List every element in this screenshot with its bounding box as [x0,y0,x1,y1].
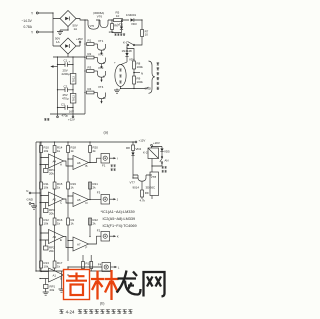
transistor VT3 [98,66,106,82]
resistor R6 [109,20,119,34]
svg-text:VT3: VT3 [98,66,104,70]
svg-text:K-2: K-2 [143,151,148,155]
resistor ladder rails [41,142,90,271]
svg-text:VT5: VT5 [90,25,95,28]
svg-text:A1: A1 [53,273,57,277]
wire bus left column [50,20,85,114]
svg-text:IC2(A5~A8):LM339: IC2(A5~A8):LM339 [103,217,136,221]
svg-text:VT6: VT6 [97,14,103,18]
terminal ground line [44,114,58,121]
svg-text:20k: 20k [50,288,55,292]
svg-text:N: N [26,189,28,193]
wire main rail [76,19,129,21]
branch K-2 [126,142,148,178]
op-amp A7 [64,237,89,252]
svg-text:10k: 10k [44,222,49,226]
regulator 7805 [70,94,76,104]
svg-text:A2: A2 [53,197,57,201]
svg-text:16V: 16V [69,110,74,114]
svg-text:K: K [117,235,119,239]
svg-text:10: 10 [145,33,149,37]
svg-text:B: B [86,164,88,168]
brace [144,61,155,93]
ground-wire arrow [50,65,57,67]
resistor R20 [67,218,75,226]
svg-text:N: N [141,71,143,75]
svg-text:A6: A6 [77,161,81,165]
svg-text:+20V: +20V [153,141,160,145]
label +25V [76,37,83,46]
resistor R3 row [87,66,98,73]
svg-text:F3: F3 [97,191,101,195]
svg-text:4.7k: 4.7k [140,199,146,203]
resistor R2 row [87,52,98,59]
svg-text:R3: R3 [88,66,92,70]
svg-text:GND: GND [27,198,33,202]
terminal Y2 [31,31,38,35]
svg-text:100k: 100k [137,80,144,84]
svg-text:K: K [103,61,105,65]
caption [59,309,132,314]
svg-text:A3: A3 [53,235,57,239]
wire [38,13,60,46]
svg-text:R2: R2 [88,52,92,56]
left rails [36,142,40,271]
inverter F1 [89,154,118,168]
svg-text:*IC1(A1~A4):LM339: *IC1(A1~A4):LM339 [101,210,135,214]
svg-text:+12V: +12V [139,139,146,143]
svg-text:IC3(F1~F4):TC4069: IC3(F1~F4):TC4069 [103,224,137,228]
svg-text:1A: 1A [56,40,60,44]
resistor R11 [40,182,49,190]
svg-text:VD4: VD4 [136,147,142,151]
svg-text:F1: F1 [102,164,106,168]
svg-text:VD5: VD5 [164,150,170,154]
resistor R12 [40,218,50,226]
svg-text:~14.3V: ~14.3V [22,19,33,23]
watermark wang [144,272,165,297]
resistor R14 [53,146,63,154]
svg-text:C2: C2 [64,84,68,88]
watermark box [64,270,90,300]
terminal +20V [151,141,160,148]
diode VD4 [122,49,136,63]
svg-text:A: A [60,163,62,167]
resistor row4 right b [90,255,93,271]
svg-text:VD3: VD3 [131,22,137,26]
resistor R19 [67,182,77,190]
LED VD2 charging indicator [112,20,124,33]
label to charging circuit (vertical) [157,63,160,90]
resistor R24 pull-up [89,218,99,226]
svg-text:R8: R8 [126,146,130,150]
svg-text:1N4001: 1N4001 [126,13,137,17]
transistor VT6 [93,11,108,28]
top rail [36,141,135,143]
transistor VT4 [98,85,107,104]
bottom rail [36,196,152,272]
svg-text:7812: 7812 [72,95,76,102]
terminal GND [27,198,38,210]
battery [114,61,127,87]
watermark long [117,271,141,295]
svg-text:VT4: VT4 [98,85,104,89]
resistor R15 [53,182,63,190]
resistor R4 row [87,87,98,94]
pot RP3 [44,203,56,216]
svg-text:AN: AN [165,159,169,163]
svg-text:A5: A5 [77,198,81,202]
label overcharge protect [111,165,116,171]
diode VD5 [152,147,170,157]
svg-text:R1: R1 [86,262,90,266]
resistor R5 [114,11,123,22]
svg-text:VT2: VT2 [98,53,104,57]
resistor R18 [67,146,77,154]
svg-text:D: D [86,201,88,205]
svg-text:F2: F2 [97,229,101,233]
resistor R10 [40,146,50,154]
svg-text:VT8: VT8 [151,175,157,179]
svg-text:(a): (a) [104,130,108,134]
svg-text:F4: F4 [98,263,102,267]
transistor VT2 [98,53,106,69]
transistor VT5 [88,20,99,29]
resistor R8 [127,49,143,70]
svg-text:20k: 20k [49,211,54,215]
pot RP4 [44,165,56,176]
op-amp A1 [40,268,64,282]
svg-text:10k: 10k [44,186,49,190]
resistor R1 row [87,39,98,46]
capacitor C1 [58,59,74,76]
svg-text:470μ: 470μ [62,96,69,100]
capacitor C2 [58,84,74,100]
terminal +12V [135,139,145,143]
inverter F2 [89,229,119,245]
svg-text:9014: 9014 [133,186,140,190]
node N [133,71,143,75]
resistor R9 [133,69,144,89]
svg-text:VD2: VD2 [118,22,124,26]
svg-text:C1: C1 [64,59,68,63]
ground under battery [114,87,121,94]
pot RP1 [43,279,56,296]
svg-text:100: 100 [109,30,114,34]
svg-text:10: 10 [116,14,120,18]
watermark ji [66,273,87,296]
svg-text:+25V: +25V [76,37,83,41]
bridge rectifier B1 [60,11,76,27]
transistor VT1 [98,39,106,55]
svg-text:C: C [60,201,62,205]
svg-text:0.78A: 0.78A [24,25,33,29]
regulator 7812 [70,74,76,85]
svg-text:+: + [114,61,116,65]
svg-text:R1: R1 [88,39,92,43]
svg-text:3DG6C: 3DG6C [146,186,156,190]
label charging indicator [114,34,116,36]
wire right rail [135,20,142,45]
svg-text:A7: A7 [77,242,81,246]
watermark lin [91,270,119,300]
switch contact K-1 [123,41,135,49]
terminal N [26,189,40,194]
diode VD3 [126,13,142,26]
op-amp A6 [64,156,89,170]
svg-text:1A: 1A [74,27,78,31]
switch AN [152,156,169,166]
terminal +12V [68,114,75,122]
relay K [148,148,159,172]
resistor R22 pull-up [89,146,99,154]
inverter F3 [89,191,119,205]
svg-text:(b): (b) [100,301,104,305]
svg-text:2200μ: 2200μ [62,72,70,76]
svg-text:VT7: VT7 [130,181,136,185]
svg-text:7812: 7812 [72,76,76,83]
resistor R7 [141,30,149,37]
svg-text:4-24: 4-24 [66,309,75,314]
transistor VT7 [130,175,153,190]
svg-text:K-1: K-1 [123,41,128,45]
svg-text:R9: R9 [145,191,149,195]
label start/reset [162,166,167,172]
ground stub right [59,271,65,292]
op-amp A3 [40,230,64,244]
svg-text:F: F [86,246,88,250]
svg-text:+12V: +12V [68,118,75,122]
resistor R17 [53,261,63,269]
resistor R13 [40,261,50,269]
resistor R23 pull-up [89,182,99,190]
svg-text:100k: 100k [137,65,144,69]
svg-text:10k: 10k [44,265,49,269]
resistor R16 [53,218,63,226]
op-amp A5 [64,193,89,207]
resistor row4 right a [82,255,90,271]
op-amp A4 [40,154,64,168]
svg-text:20k: 20k [49,171,54,175]
capacitor C3 [58,103,75,118]
wire GND row [121,88,145,90]
svg-text:C3: C3 [61,103,65,107]
svg-text:A4: A4 [53,159,57,163]
svg-text:20k: 20k [49,249,54,253]
op-amp A2 [40,192,64,206]
bridge rectifier B2 [60,38,76,54]
ground [57,27,68,35]
terminal Y1 [31,12,38,16]
pot RP2 [44,240,56,253]
svg-text:R4: R4 [88,87,92,91]
resistor R19b [140,181,149,203]
transistor VT8 box [146,172,159,196]
svg-text:10k: 10k [44,149,49,153]
svg-text:+: + [69,60,71,64]
inverter F4 [64,263,120,276]
svg-text:VT1: VT1 [98,39,104,43]
svg-text:E: E [60,238,62,242]
